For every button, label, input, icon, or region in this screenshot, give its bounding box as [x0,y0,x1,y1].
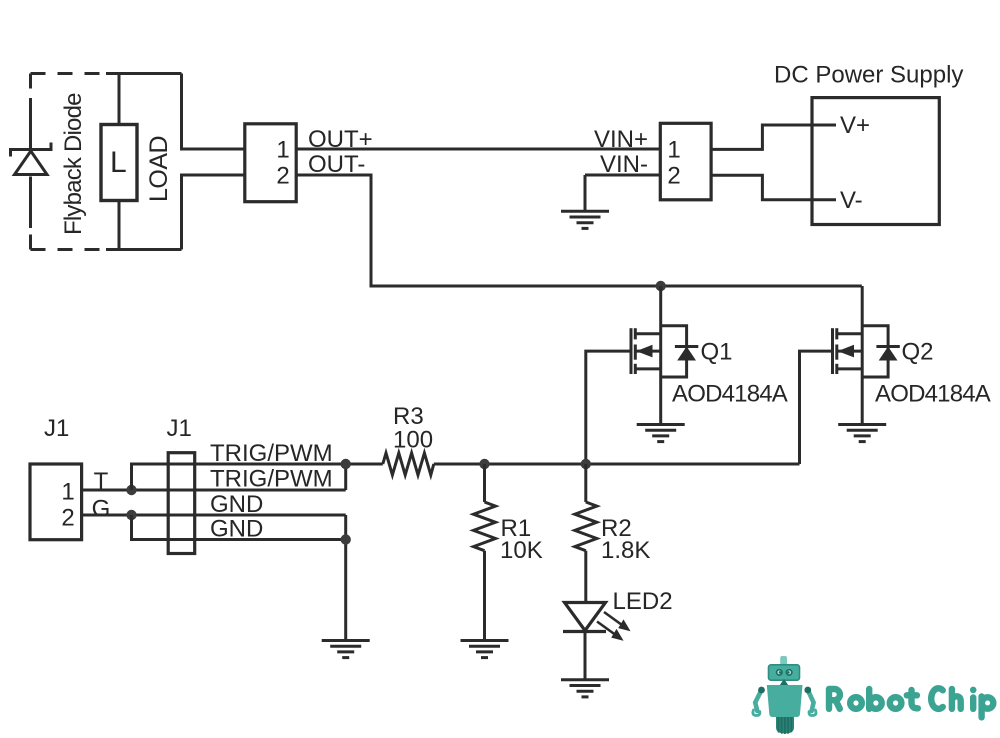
transistor Q1 AOD4184A [631,286,698,425]
svg-text:TRIG/PWM: TRIG/PWM [210,466,333,493]
left arm [755,690,761,711]
wire row2 riser [344,464,347,490]
wire J1 pin1 [82,489,346,492]
RobotChip logo text [829,688,993,717]
wire node to Q2 gate [586,463,800,466]
ground (R1) [461,641,509,658]
ground (LED2) [561,680,609,697]
svg-text:2: 2 [667,163,680,190]
wire Q2 gate [800,351,833,464]
wire load loop to pin2 [182,175,245,250]
wire row1 left link [132,464,383,490]
connector VIN box [660,123,711,200]
svg-text:AOD4184A: AOD4184A [875,381,991,408]
wire OUT+ to VIN connector [296,148,660,151]
svg-text:Q2: Q2 [902,339,934,366]
wire VIN- ground lead [584,175,587,211]
svg-text:J1: J1 [167,415,192,442]
svg-text:1: 1 [276,137,289,164]
header J1 box [168,453,195,554]
svg-text:J1: J1 [44,415,69,442]
wire R1 bottom lead [483,551,486,641]
svg-text:1: 1 [61,479,74,506]
connector OUT box [245,124,296,202]
wire R3 to node [434,463,586,466]
resistor R1 [474,502,496,551]
svg-text:Flyback Diode: Flyback Diode [60,93,87,235]
junction row1 [341,459,351,469]
junction R2 top [581,459,591,469]
body [767,685,803,717]
junction row4 [341,534,351,544]
junction pin1 [126,485,136,495]
ground (VIN-) [561,211,609,228]
eyes [777,670,782,675]
ground (Q1 source) [637,425,685,442]
shoulders [758,687,765,694]
svg-text:1: 1 [667,137,680,164]
RobotChip logo robot [753,656,816,734]
wire VIN pin1 to V+ [711,125,836,149]
wire J1 pin2 [82,514,346,517]
svg-text:V-: V- [840,187,863,214]
legs [776,717,794,734]
svg-text:AOD4184A: AOD4184A [672,381,788,408]
svg-text:LOAD: LOAD [145,136,173,202]
flyback diode D1 (schottky) [11,143,52,175]
connector J1 box [30,464,82,540]
junction R3 right [479,459,489,469]
wire R1 top lead [483,464,486,502]
junction drain bus [656,281,666,291]
svg-text:LED2: LED2 [613,588,673,615]
svg-text:10K: 10K [500,537,543,564]
svg-text:2: 2 [61,505,74,532]
wire diode leads [29,98,32,228]
svg-text:GND: GND [210,491,263,518]
DC power supply box [812,98,939,225]
svg-text:G: G [92,496,111,523]
transistor Q2 AOD4184A [833,286,900,425]
svg-text:GND: GND [210,516,263,543]
svg-text:2: 2 [276,163,289,190]
wire R2 top lead [584,464,587,502]
wire R2 to LED [584,551,587,603]
wire OUT- to drain bus [296,175,862,286]
junction pin2 [126,510,136,520]
wire row4 left link [132,515,346,540]
inductor L box [101,125,137,201]
right arm [808,690,814,711]
hands [753,710,760,716]
wire load loop to pin1 [182,74,245,150]
dashed enclosure (flyback diode branch) [31,74,107,250]
wire load bottom [106,201,182,250]
resistor R3 [383,453,434,475]
resistor R2 [575,502,597,551]
ground (J1 GND) [322,641,370,658]
wire LED to ground [584,632,587,680]
LED2 emission arrows [597,612,630,640]
svg-text:TRIG/PWM: TRIG/PWM [210,440,333,467]
wire VIN pin2 to V- [711,175,836,200]
wire load top [106,74,182,125]
svg-text:V+: V+ [840,112,870,139]
antenna [780,656,787,666]
svg-text:VIN+: VIN+ [594,126,648,153]
wire Q1 gate [586,351,631,464]
svg-text:Q1: Q1 [701,339,733,366]
svg-text:1.8K: 1.8K [601,537,650,564]
svg-text:DC Power Supply: DC Power Supply [774,62,963,89]
svg-text:L: L [110,146,127,179]
neck [780,679,789,686]
head [769,665,800,680]
wire GND drop [344,515,347,641]
LED LED2 [563,603,606,632]
ground (Q2 source) [838,425,886,442]
wire VIN- to connector [585,174,660,177]
